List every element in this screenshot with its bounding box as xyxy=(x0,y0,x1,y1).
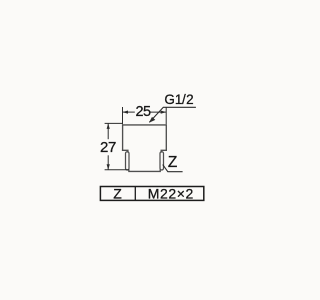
part body outline xyxy=(123,125,167,171)
svg-text:25: 25 xyxy=(136,104,151,120)
leader G1/2 arrowhead xyxy=(149,117,155,123)
svg-text:G1/2: G1/2 xyxy=(164,92,193,107)
leader Z xyxy=(163,165,183,172)
dimension 27 arrows xyxy=(107,123,110,169)
leader G1/2 xyxy=(149,107,196,122)
svg-text:27: 27 xyxy=(100,139,116,156)
dimension 25 extension lines xyxy=(123,107,167,124)
spec table frame xyxy=(100,187,203,201)
left thread capsule xyxy=(126,152,130,170)
right thread capsule xyxy=(160,152,164,170)
spec table divider xyxy=(134,187,136,201)
dimension 25 line xyxy=(123,111,167,113)
svg-text:M22×2: M22×2 xyxy=(148,186,194,202)
dimension 27 extension lines xyxy=(105,123,129,169)
dimension 25 arrows xyxy=(123,111,167,114)
dimension 27 line xyxy=(107,123,109,169)
svg-text:Z: Z xyxy=(113,186,122,202)
svg-text:Z: Z xyxy=(168,154,177,171)
